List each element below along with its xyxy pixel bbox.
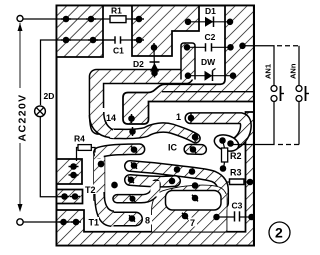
copper curl trace hooking over bottom arm: [117, 184, 156, 199]
pad block A a: [71, 164, 76, 169]
copper trace W1 wavy to pin2 cap: [112, 127, 196, 138]
svg-text:D1: D1: [205, 6, 216, 16]
copper bottom-right mass: [152, 185, 227, 231]
zener DW: [188, 75, 233, 77]
pad pin8 arm: [129, 216, 134, 221]
wire bottom terminal to block C: [23, 221, 76, 223]
pad DW right: [230, 73, 235, 78]
wire C1 row: [66, 39, 115, 41]
copper bottom arm of trunk with pin8 cap: [110, 212, 136, 227]
capacitor C3: [217, 216, 235, 218]
svg-text:14: 14: [106, 113, 116, 123]
elbow junction trunk to bottom arm: [95, 193, 114, 226]
wire AN dashed top: [277, 45, 299, 47]
lamp wire down to block B: [40, 117, 64, 197]
lamp wire from block to lamp: [41, 40, 67, 105]
pad R1 left: [88, 16, 93, 21]
pad C3 right: [249, 214, 254, 219]
copper DW block on band1: [181, 43, 195, 80]
svg-text:R4: R4: [74, 134, 85, 144]
wire AN1 down to R2 node: [231, 102, 275, 145]
pad block C b: [73, 219, 78, 224]
svg-text:DW: DW: [201, 57, 216, 67]
pad block A b: [71, 172, 76, 177]
pad AN wire: [240, 43, 245, 48]
seam patch trunk-arm top: [95, 150, 104, 158]
button ANn: [296, 86, 302, 92]
lamp 2D: [35, 106, 46, 117]
circled figure number 2: [269, 222, 290, 243]
pad mass top: [192, 183, 197, 188]
pad C2 left: [184, 45, 189, 50]
pad pin14: [129, 116, 134, 121]
pad D2 top: [151, 45, 156, 50]
pad D1 right: [227, 19, 232, 24]
white pocket pin7: [166, 191, 222, 211]
label 7: [189, 218, 197, 227]
pad curl cap: [130, 197, 135, 202]
pad R2 top b: [228, 141, 233, 146]
copper right column lower merged with bottom strip and block C: [57, 112, 254, 246]
copper F1 arm of trunk with cap: [99, 149, 140, 152]
pad R2 top a: [220, 138, 225, 143]
pad block B b: [72, 194, 77, 199]
label T2: [84, 185, 97, 195]
copper block B (T2 lower): [57, 190, 83, 204]
pad C3 left: [214, 214, 219, 219]
pad pin2 cap: [192, 134, 197, 139]
terminal bottom: [17, 219, 23, 225]
copper block A (T2 upper): [57, 159, 83, 184]
pad pin3: [190, 147, 195, 152]
label T1: [88, 217, 100, 227]
pad F2 mid: [189, 169, 194, 174]
svg-text:R3: R3: [230, 168, 242, 178]
diode D1: [188, 21, 230, 23]
copper pin1 pill trace bending down to R2: [191, 118, 246, 145]
pad D2 bottom: [152, 70, 157, 75]
copper block top-middle: [132, 6, 199, 57]
pad F2 band: [174, 167, 179, 172]
capacitor C1: [93, 39, 115, 41]
pad C2 right: [228, 45, 233, 50]
seam patch curl-mass: [150, 181, 159, 197]
svg-text:IC: IC: [168, 143, 178, 153]
pad C1 right: [136, 37, 141, 42]
svg-text:2D: 2D: [44, 91, 55, 101]
pad block B a: [62, 194, 67, 199]
copper trunk: [94, 152, 105, 200]
pad via trunk: [98, 161, 103, 166]
pad strip top: [220, 166, 225, 171]
pad R1 right: [136, 16, 141, 21]
resistor R3: [227, 181, 251, 183]
svg-text:AC220V: AC220V: [17, 93, 29, 141]
svg-text:C2: C2: [205, 32, 216, 42]
pad top-left block: [63, 16, 68, 21]
pad D1 left: [185, 19, 190, 24]
svg-text:R2: R2: [230, 151, 242, 161]
arrow up below terminal: [19, 23, 21, 88]
svg-text:T1: T1: [89, 218, 100, 228]
svg-text:ANn: ANn: [289, 63, 298, 79]
svg-text:2: 2: [275, 225, 283, 241]
resistor R1: [110, 16, 126, 23]
pad band-A left: [130, 129, 135, 134]
copper pin3 descending pill: [189, 144, 202, 156]
svg-text:8: 8: [145, 216, 150, 226]
wire lower vertical with down arrow: [19, 143, 21, 210]
wire to AN buttons solid: [243, 46, 275, 85]
pad DW left: [185, 73, 190, 78]
copper right column upper with pin14 mass: [123, 6, 254, 125]
copper block top-left: [57, 6, 104, 58]
label 8: [144, 215, 152, 225]
wire terminal to R1 row: [23, 18, 139, 20]
pad pin1: [188, 115, 193, 120]
pad lamp row: [63, 37, 68, 42]
pad C1 left: [90, 37, 95, 42]
svg-text:AN1: AN1: [264, 64, 273, 79]
white cap around R2 top pads: [212, 132, 240, 154]
copper F2 trace curving down into R2-R3 strip: [130, 166, 223, 203]
pad pin7: [192, 195, 197, 200]
pad F2: [131, 163, 136, 168]
pad block C a: [61, 219, 66, 224]
svg-text:C3: C3: [232, 201, 243, 211]
diode D2: [153, 49, 156, 73]
board outline: [57, 6, 255, 246]
pad F1: [131, 147, 136, 152]
pad via left col lower: [112, 182, 117, 187]
strip inner edge line: [162, 91, 253, 93]
copper F3 trace: [130, 180, 175, 182]
svg-text:C1: C1: [113, 46, 124, 56]
svg-text:1: 1: [176, 112, 181, 122]
svg-text:7: 7: [190, 218, 195, 228]
wire ANn down dashed bottom: [298, 102, 300, 145]
pad F3 end: [169, 178, 174, 183]
button AN1: [271, 86, 277, 92]
seam patch strip-mass: [219, 194, 227, 210]
pad R3 right: [247, 179, 252, 184]
resistor R2: [223, 142, 225, 148]
resistor R4: [77, 148, 79, 162]
pads with ticks: [59, 16, 255, 224]
pad mass below pocket: [182, 213, 187, 218]
capacitor C2: [187, 46, 206, 48]
pad F3: [128, 177, 133, 182]
svg-text:T2: T2: [85, 185, 96, 195]
terminal top: [17, 16, 23, 22]
junction arm to W1: [90, 108, 114, 138]
svg-text:D2: D2: [133, 59, 144, 69]
svg-text:R1: R1: [111, 6, 122, 16]
copper band1 J-shape arm down to wavy trace W1 ending at pin2 cap: [97, 77, 187, 128]
